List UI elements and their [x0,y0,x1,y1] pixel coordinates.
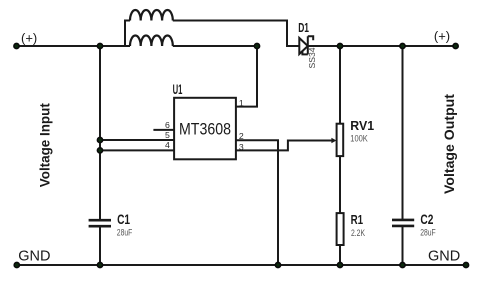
svg-text:6: 6 [165,120,170,130]
wire: pin 2 down to GND [236,140,278,265]
wire: output rail down RV1 branch [339,46,341,265]
svg-text:R1: R1 [351,212,364,227]
wire: GND rail [17,264,466,266]
IC U1 box [174,98,236,160]
inductor L (bottom winding) [130,36,173,47]
terminal: input (+) [14,43,19,48]
wire: diode cathode to output terminal [308,45,456,47]
svg-text:100K: 100K [350,133,368,143]
svg-text:D1: D1 [298,21,309,35]
svg-text:U1: U1 [173,82,183,97]
node: R1 / GND [337,262,342,267]
resistor R1 [337,213,344,245]
svg-text:28uF: 28uF [117,227,133,237]
svg-text:GND: GND [428,249,460,265]
potentiometer RV1 body [337,124,344,156]
wire: rail from inductor to SW node [173,45,257,47]
svg-text:2: 2 [239,131,244,141]
capacitor C2 [392,220,414,226]
node: output rail / C2 [400,43,405,48]
svg-text:SS34: SS34 [308,47,317,69]
svg-text:1: 1 [239,98,244,108]
node: SW net [254,43,259,48]
svg-text:MT3608: MT3608 [179,119,231,138]
diode D1 [299,36,313,54]
node: pin 2 / GND [275,262,280,267]
wire: left rail down through C1 to GND [99,46,101,265]
svg-text:Voltage Input: Voltage Input [37,103,52,187]
terminal: output (+) [453,43,458,48]
wire: pin 6 no-connect stub [153,129,174,131]
wire: C2 branch [402,46,404,265]
wire: top winding to diode anode [173,21,299,47]
wire: pin 5 stub to rail [100,139,174,141]
terminal: GND right [463,262,468,267]
svg-text:GND: GND [18,249,50,265]
wire: pin 1 to SW node [236,46,257,107]
potentiometer RV1 wiper arrow [331,138,336,143]
svg-text:RV1: RV1 [350,118,374,133]
svg-text:5: 5 [165,130,170,140]
wire: riser to top winding [125,21,130,47]
svg-text:C2: C2 [420,212,433,227]
svg-text:2.2K: 2.2K [351,228,365,238]
node: output rail / RV1 [337,43,342,48]
svg-text:28uF: 28uF [420,228,436,238]
node: C2 / GND [400,262,405,267]
inductor L (top winding) [130,10,173,20]
svg-text:Voltage Output: Voltage Output [442,93,457,194]
svg-text:3: 3 [239,142,244,152]
terminal: GND left [14,262,19,267]
node: pin 5 / rail [97,137,102,142]
capacitor C1 [89,220,111,226]
svg-text:C1: C1 [117,212,130,227]
wire: pin 3 to RV1 wiper [236,141,332,151]
wire: pin 4 stub to rail [100,149,174,151]
node: pin 4 / rail [97,148,102,153]
junction dots and terminals [14,43,469,267]
node: C1 / GND [97,262,102,267]
svg-text:4: 4 [165,140,170,150]
node: input rail / left rail [97,43,102,48]
wire: top input rail [17,45,131,47]
svg-text:(+): (+) [21,31,37,46]
svg-text:(+): (+) [434,29,450,44]
